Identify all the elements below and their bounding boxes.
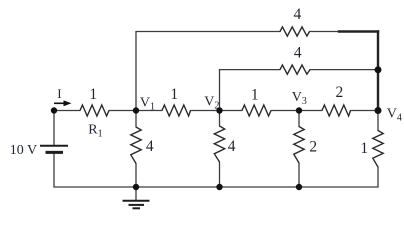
svg-text:10 V: 10 V — [10, 143, 37, 158]
svg-text:1: 1 — [360, 140, 368, 157]
svg-text:1: 1 — [251, 86, 259, 103]
svg-text:4: 4 — [228, 138, 236, 155]
svg-text:V4: V4 — [387, 106, 402, 123]
svg-text:1: 1 — [170, 86, 178, 103]
svg-text:4: 4 — [294, 6, 302, 23]
svg-text:V2: V2 — [204, 94, 219, 111]
svg-text:1: 1 — [89, 86, 97, 103]
svg-text:R1: R1 — [88, 123, 102, 140]
svg-text:4: 4 — [146, 138, 154, 155]
svg-text:V3: V3 — [292, 90, 307, 107]
svg-text:V1: V1 — [140, 95, 155, 112]
svg-text:I: I — [57, 86, 61, 101]
svg-text:2: 2 — [309, 139, 317, 156]
svg-text:4: 4 — [294, 45, 302, 62]
svg-text:2: 2 — [336, 84, 344, 101]
